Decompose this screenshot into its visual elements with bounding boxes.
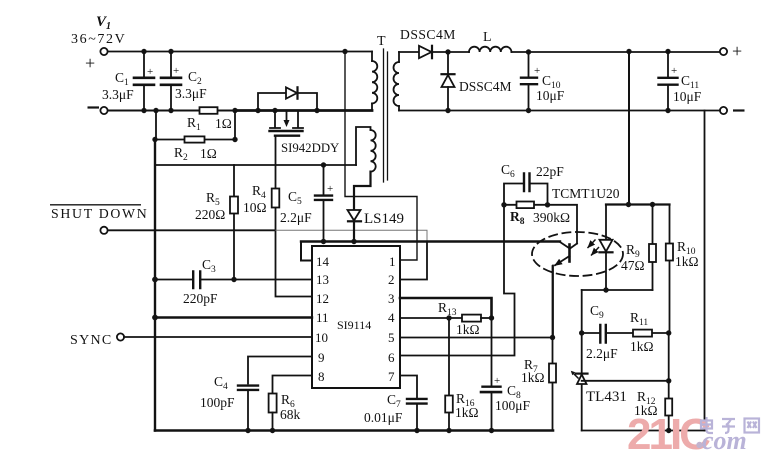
terminal: V1 + input bbox=[100, 48, 107, 55]
diode D2 DSSC4M shunt bbox=[447, 52, 449, 74]
capacitor C11 bbox=[667, 52, 669, 111]
svg-text:+: + bbox=[173, 65, 179, 77]
svg-text:+: + bbox=[494, 375, 500, 387]
transformer core bbox=[384, 49, 388, 182]
resistor R10 bbox=[669, 205, 671, 334]
svg-text:TL431: TL431 bbox=[586, 389, 627, 405]
wire: pin 11 line bbox=[155, 316, 312, 318]
svg-text:2: 2 bbox=[388, 272, 395, 287]
svg-text:SI9114: SI9114 bbox=[337, 318, 371, 332]
svg-text:C6: C6 bbox=[501, 162, 515, 180]
capacitor C3 bbox=[193, 272, 200, 289]
wire: VIN riser to pin 1 bbox=[345, 52, 417, 261]
svg-text:R2: R2 bbox=[174, 145, 188, 163]
svg-text:1Ω: 1Ω bbox=[215, 116, 232, 131]
svg-text:+: + bbox=[327, 183, 333, 195]
svg-text:R5: R5 bbox=[206, 190, 220, 208]
wire: C9 R11 line bbox=[582, 332, 669, 334]
svg-text:100μF: 100μF bbox=[495, 398, 530, 413]
resistor R6 bbox=[269, 394, 277, 413]
svg-text:C9: C9 bbox=[590, 303, 604, 321]
svg-text:7: 7 bbox=[388, 369, 395, 384]
svg-text:C1: C1 bbox=[115, 70, 129, 88]
LED in optocoupler bbox=[605, 205, 607, 240]
resistor R1 bbox=[200, 107, 218, 114]
svg-text:2.2μF: 2.2μF bbox=[280, 210, 312, 225]
svg-text:1kΩ: 1kΩ bbox=[455, 405, 479, 420]
terminal: output + bbox=[720, 48, 727, 55]
capacitor C5 bbox=[323, 165, 325, 242]
svg-text:9: 9 bbox=[318, 350, 325, 365]
svg-text:8: 8 bbox=[318, 369, 325, 384]
wire: input + top rail bbox=[108, 51, 372, 53]
wire: pin 2 riser bbox=[400, 242, 427, 280]
svg-text:3.3μF: 3.3μF bbox=[102, 87, 134, 102]
svg-text:68k: 68k bbox=[280, 407, 301, 422]
wire: pin 8 to R6 bbox=[273, 376, 313, 394]
watermark 电子网 glyphs bbox=[701, 417, 759, 433]
svg-text:1kΩ: 1kΩ bbox=[521, 370, 545, 385]
svg-text:C3: C3 bbox=[202, 257, 216, 275]
wire: SHUT DOWN line bbox=[108, 229, 276, 231]
wire: secondary top line bbox=[399, 51, 419, 53]
phototransistor bbox=[548, 205, 578, 244]
svg-text:SI942DDY: SI942DDY bbox=[281, 141, 339, 155]
svg-text:+: + bbox=[732, 41, 742, 61]
svg-text:5: 5 bbox=[388, 330, 395, 345]
svg-text:SHUT DOWN: SHUT DOWN bbox=[51, 206, 148, 221]
svg-text:6: 6 bbox=[388, 350, 395, 365]
svg-text:C5: C5 bbox=[288, 189, 302, 207]
svg-text:220pF: 220pF bbox=[183, 291, 218, 306]
wire: input - / source-drain rail bbox=[108, 110, 235, 112]
capacitor C8 bbox=[491, 318, 493, 431]
resistor R9 bbox=[652, 205, 654, 291]
capacitor C7 bbox=[407, 399, 427, 404]
svg-text:2.2μF: 2.2μF bbox=[586, 346, 618, 361]
resistor R4 + gate vertical bbox=[276, 137, 313, 297]
wire: TL431 cathode vertical bbox=[581, 290, 583, 431]
transformer T primary bbox=[371, 52, 373, 62]
transformer T secondary bbox=[398, 52, 400, 62]
resistor R11 bbox=[633, 330, 652, 337]
wire: TL431 ref line bbox=[582, 380, 669, 382]
pin numbers left bbox=[315, 254, 396, 384]
wire: 165 line bbox=[155, 164, 356, 166]
svg-text:DSSC4M: DSSC4M bbox=[459, 79, 512, 94]
wire: pin 7 to C7 bbox=[400, 376, 417, 399]
watermark 21IC.com bbox=[627, 410, 759, 459]
svg-text:LS149: LS149 bbox=[364, 211, 404, 227]
TL431 symbol bbox=[576, 373, 588, 375]
svg-text:11: 11 bbox=[316, 310, 329, 325]
svg-text:10μF: 10μF bbox=[536, 88, 565, 103]
svg-text:R1: R1 bbox=[187, 115, 201, 133]
capacitor C2 bbox=[170, 53, 172, 110]
capacitor C4 bbox=[238, 386, 258, 390]
diode D1 DSSC4M series bbox=[419, 46, 432, 58]
resistor R16 bbox=[448, 318, 450, 431]
wire: primary ground rail bbox=[155, 429, 553, 432]
svg-text:T: T bbox=[377, 34, 386, 49]
svg-text:L: L bbox=[483, 30, 492, 45]
capacitor C1 bbox=[143, 53, 145, 110]
svg-text:10μF: 10μF bbox=[673, 89, 702, 104]
svg-text:3.3μF: 3.3μF bbox=[175, 86, 207, 101]
wire: opto rail bbox=[606, 203, 670, 205]
capacitor C10 bbox=[528, 52, 530, 111]
wire: opto bottom node bbox=[582, 289, 653, 291]
svg-text:C7: C7 bbox=[387, 392, 401, 410]
svg-text:com: com bbox=[702, 426, 747, 455]
svg-text:1kΩ: 1kΩ bbox=[630, 339, 654, 354]
terminal: V1 - input bbox=[100, 107, 107, 114]
terminal: output - bbox=[720, 107, 727, 114]
wire: primary common vertical bbox=[154, 140, 156, 431]
wire: pin 13 / C3 line bbox=[155, 279, 312, 281]
svg-text:0.01μF: 0.01μF bbox=[364, 410, 403, 425]
wire: right tall vertical bbox=[704, 111, 706, 431]
light arrows bbox=[588, 240, 595, 248]
resistor R8 bbox=[504, 204, 548, 206]
svg-text:R4: R4 bbox=[252, 183, 266, 201]
resistor R7 + emitter vertical bbox=[552, 266, 554, 431]
svg-text:12: 12 bbox=[316, 291, 329, 306]
transformer T aux winding bbox=[356, 127, 371, 165]
svg-text:220Ω: 220Ω bbox=[195, 207, 225, 222]
svg-text:3: 3 bbox=[388, 291, 395, 306]
svg-text:C4: C4 bbox=[214, 374, 228, 392]
svg-text:10Ω: 10Ω bbox=[243, 200, 267, 215]
node: top rail junctions bbox=[141, 49, 347, 113]
svg-text:13: 13 bbox=[316, 272, 329, 287]
svg-text:C2: C2 bbox=[188, 69, 202, 87]
resistor R12 bbox=[668, 333, 670, 431]
wire: pin 9 to C4 bbox=[248, 357, 312, 384]
svg-text:47Ω: 47Ω bbox=[621, 258, 645, 273]
svg-text:1kΩ: 1kΩ bbox=[456, 322, 480, 337]
wire: line above IC (pin14 net) bbox=[301, 240, 560, 242]
svg-text:22pF: 22pF bbox=[536, 164, 564, 179]
resistor R2 + loop bbox=[155, 111, 235, 140]
svg-text:36~72V: 36~72V bbox=[71, 32, 126, 47]
svg-text:TCMT1U20: TCMT1U20 bbox=[552, 186, 620, 201]
diode LS149 bbox=[348, 210, 361, 221]
svg-text:+: + bbox=[671, 65, 677, 77]
svg-text:SYNC: SYNC bbox=[70, 333, 113, 348]
svg-text:R11: R11 bbox=[630, 310, 648, 328]
terminal: SHUT DOWN bbox=[100, 227, 107, 234]
node dots secondary top bbox=[445, 49, 670, 55]
IC U1 SI9114 bbox=[312, 246, 400, 388]
diode: Q1 body diode bbox=[258, 93, 317, 111]
svg-text:10: 10 bbox=[315, 330, 328, 345]
capacitor C6 loop bbox=[504, 184, 548, 206]
wire: pin 4 / R13 bbox=[400, 317, 462, 319]
svg-text:R8: R8 bbox=[510, 209, 525, 227]
svg-text:1kΩ: 1kΩ bbox=[675, 254, 699, 269]
resistor R13 bbox=[462, 315, 481, 322]
wire: secondary bottom rail bbox=[399, 110, 720, 112]
svg-text:+: + bbox=[85, 53, 95, 73]
svg-text:390kΩ: 390kΩ bbox=[533, 210, 570, 225]
optocoupler U2 TCMT1U20 dashed ellipse bbox=[532, 232, 623, 276]
resistor R5 bbox=[233, 165, 235, 280]
svg-text:V1: V1 bbox=[96, 14, 111, 32]
wire: pin 3 bbox=[400, 298, 492, 318]
svg-text:+: + bbox=[147, 66, 153, 78]
wire: pin 5 line bbox=[400, 337, 553, 339]
svg-text:1Ω: 1Ω bbox=[200, 146, 217, 161]
svg-text:14: 14 bbox=[316, 254, 330, 269]
terminal: SYNC + pin 10 wire bbox=[117, 333, 124, 340]
wire: secondary ground rail bbox=[582, 430, 705, 432]
transistor Q1 SI942DDY bbox=[275, 111, 298, 128]
svg-text:R13: R13 bbox=[438, 300, 457, 318]
svg-text:+: + bbox=[534, 65, 540, 77]
wire: Vout+ riser to opto rail bbox=[628, 52, 630, 205]
inductor L bbox=[469, 47, 511, 52]
node: C5 top bbox=[321, 162, 326, 167]
wire: pin 6 to R8 left bbox=[400, 205, 515, 356]
svg-text:21IC: 21IC bbox=[627, 410, 710, 459]
svg-text:4: 4 bbox=[388, 310, 395, 325]
svg-text:100pF: 100pF bbox=[200, 395, 235, 410]
svg-text:1: 1 bbox=[389, 254, 396, 269]
svg-text:DSSC4M: DSSC4M bbox=[400, 27, 456, 42]
capacitor C9 bbox=[600, 325, 606, 343]
